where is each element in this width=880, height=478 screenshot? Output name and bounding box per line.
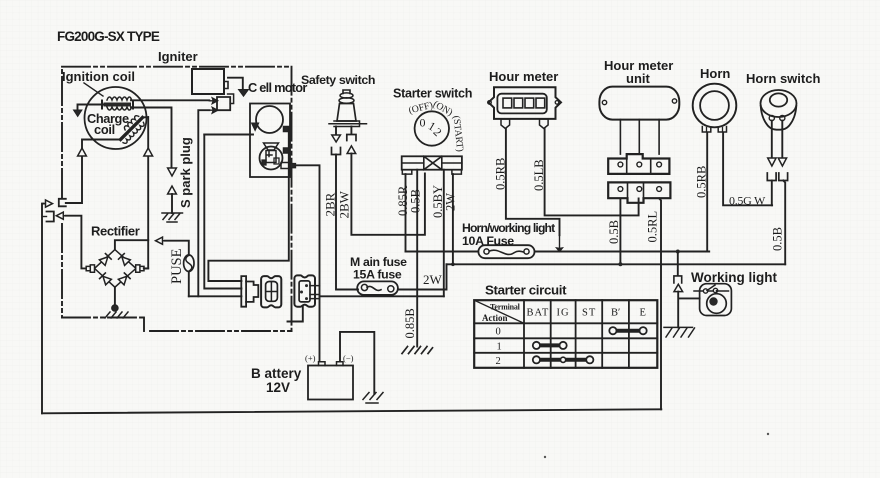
- svg-text:ST: ST: [582, 308, 596, 319]
- hour meter display window: [497, 94, 546, 114]
- svg-text:0: 0: [496, 327, 501, 338]
- hour meter digits: [503, 98, 512, 108]
- svg-text:BAT: BAT: [527, 308, 550, 319]
- connector arrow up (charge left): [78, 148, 87, 156]
- svg-text:2: 2: [496, 356, 501, 367]
- rectifier ground circle: [112, 305, 118, 311]
- rectifier ground wire: [114, 287, 116, 305]
- igniter input arrow 1: [209, 98, 217, 104]
- charge coil left lead wire: [66, 140, 121, 204]
- horn switch right bracket: [779, 173, 788, 181]
- igniter input arrow 2: [209, 107, 217, 113]
- svg-text:1: 1: [497, 342, 502, 353]
- cell motor box: [250, 104, 290, 178]
- speck: [767, 433, 769, 435]
- motor right-side wire down: [208, 129, 288, 281]
- wire connector to rectifier left: [66, 216, 86, 269]
- svg-text:Starter switch: Starter switch: [393, 87, 472, 101]
- harness female connector B: [294, 275, 315, 306]
- motor terminal lower (solenoid output): [281, 163, 290, 169]
- PUSE wire lower: [188, 272, 190, 297]
- safety switch right lead: [350, 127, 352, 135]
- cell motor feed wire: [204, 134, 253, 136]
- wire 2BW safety to starter switch: [351, 154, 425, 235]
- battery plus terminal: [319, 362, 326, 366]
- svg-text:Safety switch: Safety switch: [301, 73, 375, 87]
- igniter chassis arrow: [228, 78, 243, 89]
- table header diagonal: [474, 300, 524, 323]
- terminal block X cell: [424, 156, 442, 169]
- working light wire to lamp and ground: [678, 292, 699, 328]
- cell motor feed arrow: [252, 123, 259, 131]
- solenoid body circle: [260, 147, 283, 170]
- spark plug ground wire: [171, 194, 173, 213]
- svg-text:0.85B: 0.85B: [403, 308, 417, 338]
- cell motor armature circle: [256, 106, 283, 133]
- svg-text:Horn switch: Horn switch: [746, 71, 820, 86]
- svg-text:12V: 12V: [266, 380, 290, 395]
- motor left wire down to harness: [204, 135, 241, 289]
- rectifier top vertex wire: [115, 240, 148, 249]
- wire 0.5LB hour meter: [545, 129, 639, 216]
- ignition coil pointer line: [84, 83, 103, 96]
- terminal block left tab: [402, 170, 412, 174]
- svg-text:Working light: Working light: [691, 270, 777, 285]
- horn switch left wire: [771, 121, 773, 157]
- horn right wire: [723, 133, 772, 206]
- main fuse symbol: [357, 281, 398, 295]
- svg-text:0.5LB: 0.5LB: [532, 159, 546, 191]
- working light switch: [694, 290, 729, 292]
- igniter output tab: [224, 82, 228, 89]
- hour meter unit connector lower: [608, 182, 670, 202]
- 10A fuse symbol: [478, 245, 534, 258]
- rectifier right vertex wire: [144, 267, 148, 269]
- igniter input2 wire (to harness): [198, 110, 209, 296]
- igniter input small box: [217, 97, 230, 110]
- rectifier left terminal connector: [86, 265, 94, 272]
- ignition coil to igniter wire: [131, 99, 209, 101]
- safety switch flange: [329, 121, 367, 127]
- wire 0.5BY starter down: [443, 170, 445, 297]
- wire 0.5B unit to bus2: [619, 198, 621, 264]
- horn switch body: [761, 106, 797, 130]
- svg-text:B attery: B attery: [251, 366, 302, 381]
- svg-text:Terminal: Terminal: [490, 303, 521, 312]
- horn left wire to bus: [706, 133, 708, 252]
- safety switch left connector bracket: [332, 148, 341, 155]
- PUSE fuse symbol: [184, 255, 194, 272]
- table column lines: [524, 300, 629, 368]
- rectifier right terminal connector: [136, 265, 144, 272]
- solenoid funnel: [264, 143, 279, 150]
- battery box: [308, 366, 353, 400]
- svg-text:Rectifier: Rectifier: [91, 224, 140, 239]
- svg-text:2W: 2W: [444, 193, 458, 211]
- wire 0.5B/0.85B starter to ground: [416, 170, 418, 347]
- row1 link BAT-IG: [536, 343, 563, 347]
- battery ground: [363, 393, 383, 404]
- svg-text:Ignition coil: Ignition coil: [62, 69, 135, 84]
- svg-text:(+): (+): [305, 353, 316, 363]
- hour meter unit body: [599, 87, 679, 120]
- safety switch left lead: [335, 127, 337, 135]
- connector pair upper-left: bracket: [59, 199, 66, 207]
- bus wire 2 (2W feed): [447, 263, 786, 265]
- svg-text:coil: coil: [94, 122, 115, 137]
- solenoid to battery wire: [296, 165, 320, 361]
- connector pair lower-left: bracket: [47, 212, 54, 222]
- outer return wire: bottom border: [42, 409, 661, 413]
- svg-text:B′: B′: [611, 308, 620, 319]
- svg-text:0.5B: 0.5B: [607, 220, 621, 244]
- bus wire 10A (horn/working light): [406, 251, 710, 253]
- wire 2BR safety to main fuse: [336, 155, 358, 290]
- working light housing: [700, 284, 732, 316]
- main fuse to 2W riser wire: [398, 264, 447, 289]
- rectifier diode upper-left: [99, 254, 111, 266]
- starter switch dial circle: [415, 111, 449, 145]
- horn switch left bracket: [767, 173, 776, 181]
- rectifier ground hatch: [105, 312, 128, 318]
- wire arrow to fuse: [165, 241, 189, 256]
- spark plug HT wire: [131, 108, 172, 168]
- connector pair lower-left: arrow (left-pointing): [56, 212, 66, 219]
- rectifier bridge diamond: [95, 250, 137, 288]
- hour meter unit connector upper: [608, 154, 669, 174]
- battery minus terminal: [337, 362, 344, 366]
- svg-text:FG200G-SX TYPE: FG200G-SX TYPE: [57, 29, 160, 44]
- svg-text:Hour meter: Hour meter: [489, 69, 558, 84]
- horn switch right arrow down: [778, 158, 786, 166]
- svg-text:2BR: 2BR: [323, 192, 338, 216]
- wire 2W starter to bus2: [452, 174, 454, 264]
- horn switch left arrow down: [768, 158, 776, 166]
- table row lines: [474, 323, 657, 353]
- spark plug connector arrow down: [168, 168, 177, 176]
- horn feet: [702, 127, 726, 133]
- igniter box: [192, 69, 224, 94]
- svg-text:0.5RL: 0.5RL: [646, 211, 660, 243]
- working light drop wire: [677, 252, 679, 276]
- hour meter unit wires to connector: [620, 120, 659, 155]
- row0 link B'-E: [613, 329, 643, 333]
- spark plug connector arrow up: [168, 186, 177, 194]
- connector B stub wires: [310, 286, 320, 299]
- rectifier to fuse connector arrow: [156, 237, 166, 244]
- rectifier diode lower-right: [118, 273, 130, 285]
- fuse line to harness plug: [189, 295, 242, 297]
- wire 0.5RB drop to bus: [557, 235, 563, 251]
- hour meter right terminal: [540, 119, 549, 129]
- solenoid contacts: [266, 151, 276, 163]
- hour meter body: [488, 87, 561, 119]
- svg-text:Starter circuit: Starter circuit: [485, 283, 567, 298]
- starter circuit table frame: [474, 300, 657, 368]
- ignition coil kill stub + arrow: [78, 105, 104, 110]
- working light connector arrow up: [674, 284, 683, 291]
- safety switch left connector arrow down: [332, 135, 341, 142]
- wire 0.5RL unit to return loop: [659, 198, 661, 409]
- working light bulb: [707, 294, 727, 314]
- safety switch body: [337, 104, 356, 122]
- horn switch right lead to bus2: [783, 181, 785, 265]
- battery minus wire: [340, 332, 374, 394]
- svg-text:15A fuse: 15A fuse: [353, 268, 402, 282]
- safety switch right connector bracket: [347, 135, 356, 141]
- harness male plug: [241, 276, 246, 307]
- svg-text:0.5RB: 0.5RB: [695, 166, 709, 198]
- connector pair lower-left stub: [42, 216, 47, 218]
- svg-text:Horn: Horn: [700, 66, 730, 81]
- svg-text:0.5B: 0.5B: [409, 189, 423, 213]
- wire 0.5RB hour meter: [506, 129, 560, 236]
- rectifier diode lower-left: [100, 273, 112, 285]
- svg-text:Action: Action: [482, 313, 508, 323]
- harness long wire: [320, 295, 444, 297]
- svg-text:Igniter: Igniter: [158, 49, 198, 64]
- working light connector bracket: [674, 276, 682, 283]
- charge coil: [116, 113, 147, 144]
- connector arrow up (charge right): [144, 148, 153, 156]
- charge coil right lead wire: [143, 117, 149, 268]
- starter switch terminal block: [402, 156, 462, 169]
- svg-text:(−): (−): [343, 353, 354, 363]
- working light ground: [664, 327, 695, 337]
- svg-text:Horn/working light: Horn/working light: [462, 221, 555, 235]
- svg-text:0.5G W: 0.5G W: [729, 194, 766, 208]
- svg-text:2BW: 2BW: [337, 190, 352, 218]
- svg-text:0.5RB: 0.5RB: [494, 158, 508, 190]
- horn switch left lead to 0.5GW: [771, 181, 773, 206]
- svg-text:0: 0: [420, 116, 426, 130]
- safety switch right connector arrow up: [347, 146, 356, 154]
- motor terminal middle: [284, 148, 290, 153]
- engine block boundary (dash-dot): [62, 67, 292, 331]
- magneto flywheel circle: [85, 87, 147, 149]
- svg-text:C ell motor: C ell motor: [248, 80, 307, 95]
- terminal block right tab: [452, 170, 462, 174]
- svg-text:E: E: [640, 308, 646, 319]
- svg-text:unit: unit: [626, 71, 650, 86]
- safety switch plunger knob: [343, 90, 350, 94]
- horn switch right wire: [781, 121, 783, 157]
- svg-text:PUSE: PUSE: [169, 248, 185, 284]
- svg-text:IG: IG: [557, 308, 570, 319]
- svg-text:0.5B: 0.5B: [771, 227, 785, 251]
- speck: [544, 456, 546, 458]
- connector B drop wire: [288, 307, 303, 322]
- wire 0.85R starter to 10A bus: [405, 174, 407, 251]
- spark plug ground: [162, 213, 183, 222]
- rectifier diode upper-right: [119, 254, 131, 266]
- connector pair upper-left: arrow (male, right-pointing): [43, 200, 53, 207]
- svg-text:2W: 2W: [423, 272, 443, 287]
- harness female connector A: [261, 276, 281, 307]
- outer return wire: left border: [42, 204, 44, 414]
- 0.85B ground: [402, 347, 433, 354]
- hour meter left terminal: [501, 119, 510, 129]
- horn body: [693, 84, 737, 128]
- motor terminal upper: [284, 127, 290, 132]
- svg-text:S park plug: S park plug: [178, 137, 193, 208]
- horn switch terminals: [769, 115, 774, 120]
- row2 link BAT-IG-ST: [536, 358, 589, 362]
- ignition coil: [102, 97, 133, 110]
- working light junction: [676, 250, 680, 254]
